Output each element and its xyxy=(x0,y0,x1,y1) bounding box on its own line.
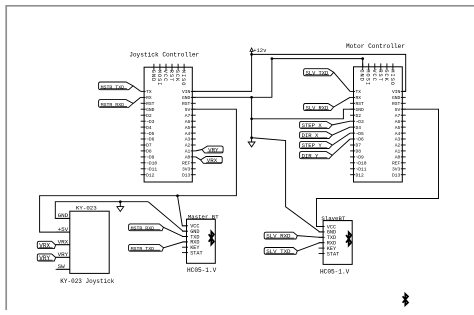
svg-text:SCK: SCK xyxy=(383,69,389,82)
wire MSTR TXD flag to TX xyxy=(133,86,141,92)
svg-text:SLV RXD: SLV RXD xyxy=(306,105,329,111)
svg-text:~D9: ~D9 xyxy=(146,155,155,161)
svg-text:~D11: ~D11 xyxy=(146,166,157,172)
svg-text:MSTR RXD: MSTR RXD xyxy=(131,225,155,231)
svg-text:VRX: VRX xyxy=(39,242,50,249)
ground symbol G2 xyxy=(117,207,124,212)
svg-text:RST: RST xyxy=(356,101,365,107)
wire VRX flag to A0 xyxy=(196,157,201,160)
svg-text:Joystick Controller: Joystick Controller xyxy=(129,51,199,58)
svg-text:D2: D2 xyxy=(146,113,152,119)
svg-text:~D10: ~D10 xyxy=(356,161,367,167)
svg-text:VIN: VIN xyxy=(182,89,191,95)
svg-text:5V: 5V xyxy=(185,107,191,113)
svg-text:A3: A3 xyxy=(185,137,191,143)
svg-text:GND: GND xyxy=(392,95,401,101)
svg-text:RST: RST xyxy=(146,101,155,107)
flag MSTR RXD (master BT TXD) xyxy=(129,224,164,231)
flag DIR X xyxy=(300,132,333,139)
svg-text:DIR X: DIR X xyxy=(302,132,319,139)
IC U2 Motor Controller (Arduino Nano) xyxy=(354,67,403,182)
svg-text:D13: D13 xyxy=(392,172,401,178)
svg-text:~D6: ~D6 xyxy=(146,137,155,143)
flag MSTR TXD (master BT RXD) xyxy=(129,244,164,251)
flag SLV RXD (slave TXD) xyxy=(264,232,297,239)
svg-text:A3: A3 xyxy=(395,137,401,143)
wire VRX flag to KY VRX xyxy=(56,244,70,246)
svg-text:~D11: ~D11 xyxy=(356,166,367,172)
flag VRX (KY-023) xyxy=(37,241,55,248)
svg-text:MOSI: MOSI xyxy=(365,69,371,86)
svg-text:RST: RST xyxy=(392,101,401,107)
wire KY GND rail xyxy=(55,202,148,219)
bluetooth icon xyxy=(209,232,214,245)
flag VRY (KY-023) xyxy=(37,254,55,261)
svg-text:VRX: VRX xyxy=(58,239,69,246)
svg-text:D4: D4 xyxy=(146,125,152,131)
svg-text:RX: RX xyxy=(356,95,362,101)
svg-text:VCC: VCC xyxy=(371,69,377,82)
wire motor 5V to slave VCC xyxy=(317,109,439,226)
wire GND to motor GND xyxy=(252,109,354,119)
wire DIR Y flag to ~D6 xyxy=(332,139,350,155)
svg-text:A4: A4 xyxy=(395,131,401,137)
svg-text:A0: A0 xyxy=(185,155,191,161)
svg-text:GND: GND xyxy=(150,70,156,83)
wire SLV TXD flag to slave RXD xyxy=(297,243,323,251)
wire 5V to master VCC xyxy=(178,196,187,226)
svg-text:GND: GND xyxy=(182,95,191,101)
flag SLV TXD (motor TX) xyxy=(304,69,334,76)
wire KY GND to master GND xyxy=(148,202,186,232)
module SlaveBT HC05 xyxy=(323,221,352,265)
svg-text:A5: A5 xyxy=(395,125,401,131)
svg-text:~D9: ~D9 xyxy=(356,155,365,161)
svg-text:MSTR TXD: MSTR TXD xyxy=(131,246,155,252)
svg-text:+12v: +12v xyxy=(253,47,267,54)
svg-text:DIR Y: DIR Y xyxy=(302,152,319,159)
node ground branch xyxy=(119,200,122,203)
svg-text:D4: D4 xyxy=(356,125,362,131)
svg-text:TX: TX xyxy=(146,89,152,95)
node GND branch motor xyxy=(250,117,253,120)
flag STEP X xyxy=(300,121,333,128)
svg-text:Motor Controller: Motor Controller xyxy=(346,43,405,50)
wire joystick GND to top rail xyxy=(192,59,362,98)
svg-text:SLV RXD: SLV RXD xyxy=(266,233,291,240)
svg-text:HC05-1.V: HC05-1.V xyxy=(187,267,217,274)
svg-text:A5: A5 xyxy=(185,125,191,131)
svg-text:REF: REF xyxy=(392,161,401,167)
svg-text:A7: A7 xyxy=(395,113,401,119)
wire SLV RXD flag to slave TXD xyxy=(297,236,323,238)
flag VRX (joystick A0) xyxy=(201,157,223,164)
svg-text:A2: A2 xyxy=(185,143,191,149)
svg-text:D7: D7 xyxy=(356,143,362,149)
flag DIR Y xyxy=(300,152,333,159)
svg-text:+5V: +5V xyxy=(58,226,69,233)
svg-text:MSTR TXD: MSTR TXD xyxy=(101,84,125,90)
svg-text:MSTR RXD: MSTR RXD xyxy=(101,102,125,108)
node GND rail right xyxy=(361,57,364,60)
svg-text:A0: A0 xyxy=(395,155,401,161)
svg-text:MISO: MISO xyxy=(389,69,395,86)
wire ground stub xyxy=(119,202,121,207)
svg-text:KY-023: KY-023 xyxy=(76,205,97,212)
svg-text:REF: REF xyxy=(182,161,191,167)
svg-text:A4: A4 xyxy=(185,131,191,137)
wire VRY flag to KY VRY xyxy=(56,256,70,258)
svg-text:RST: RST xyxy=(168,70,174,83)
svg-text:VIN: VIN xyxy=(392,89,401,95)
wire STEP Y flag to ~D5 xyxy=(332,133,350,145)
flag SLV TXD (slave RXD) xyxy=(264,248,297,255)
svg-text:5V: 5V xyxy=(395,107,401,113)
wire KY SW stub xyxy=(57,268,70,270)
svg-text:MISO: MISO xyxy=(180,70,186,87)
svg-text:STAT: STAT xyxy=(327,251,339,257)
svg-text:VRY: VRY xyxy=(208,147,219,154)
flag MSTR RXD (joystick RX) xyxy=(99,100,134,108)
svg-text:3V3: 3V3 xyxy=(182,166,191,172)
svg-text:A2: A2 xyxy=(395,143,401,149)
svg-text:VRY: VRY xyxy=(58,251,69,258)
svg-text:~D3: ~D3 xyxy=(356,119,365,125)
power +12v symbol xyxy=(250,48,253,51)
svg-text:RX: RX xyxy=(146,95,152,101)
node 5V branch xyxy=(176,194,179,197)
bluetooth icon standalone xyxy=(403,294,408,305)
svg-text:~D3: ~D3 xyxy=(146,119,155,125)
svg-text:RST: RST xyxy=(377,69,383,82)
wire slave GND branch xyxy=(252,138,324,232)
svg-text:A1: A1 xyxy=(185,149,191,155)
svg-text:D7: D7 xyxy=(146,143,152,149)
wire MSTR TXD flag to master RXD xyxy=(164,242,187,248)
svg-text:A6: A6 xyxy=(185,119,191,125)
svg-text:D8: D8 xyxy=(146,149,152,155)
wire VRY flag to A1 xyxy=(196,150,202,151)
wire STEP X flag to ~D3 xyxy=(332,121,350,125)
flag STEP Y xyxy=(300,142,333,149)
svg-text:RST: RST xyxy=(182,101,191,107)
wire joystick 5V rail xyxy=(40,109,237,232)
svg-text:GND: GND xyxy=(146,107,155,113)
svg-text:STEP X: STEP X xyxy=(302,122,323,129)
svg-text:~D5: ~D5 xyxy=(356,131,365,137)
module KY-023 joystick xyxy=(70,211,109,273)
svg-text:D12: D12 xyxy=(146,172,155,178)
bluetooth icon xyxy=(346,232,351,245)
IC U1 Joystick Controller (Arduino Nano) xyxy=(144,67,192,182)
wire +12v down to joystick VIN xyxy=(192,54,251,91)
svg-text:VRY: VRY xyxy=(39,255,50,262)
svg-text:~D6: ~D6 xyxy=(356,137,365,143)
svg-text:SW: SW xyxy=(58,263,66,270)
svg-text:~D10: ~D10 xyxy=(146,161,157,167)
svg-text:D13: D13 xyxy=(182,172,191,178)
svg-text:A1: A1 xyxy=(395,149,401,155)
svg-text:SLV TXD: SLV TXD xyxy=(266,248,291,255)
svg-text:A7: A7 xyxy=(185,113,191,119)
svg-text:VRX: VRX xyxy=(207,157,218,164)
svg-text:3V3: 3V3 xyxy=(392,166,401,172)
svg-text:GND: GND xyxy=(58,212,69,219)
svg-text:GND: GND xyxy=(359,69,365,82)
wire SLV TXD flag to motor TX xyxy=(334,72,350,91)
svg-text:STAT: STAT xyxy=(190,250,202,256)
node GND rail left xyxy=(271,57,274,60)
wire SLV RXD flag to motor RX xyxy=(334,97,350,107)
svg-text:HC05-1.V: HC05-1.V xyxy=(320,268,350,275)
wire +12v rail to motor VIN xyxy=(252,54,406,91)
svg-text:VCC: VCC xyxy=(162,70,168,83)
wire MSTR RXD flag to RX xyxy=(133,97,141,103)
wire GND vertical drop xyxy=(251,97,253,142)
flag SLV RXD (motor RX) xyxy=(304,104,334,111)
svg-text:TX: TX xyxy=(356,89,362,95)
svg-text:D12: D12 xyxy=(356,172,365,178)
svg-text:SLV TXD: SLV TXD xyxy=(306,71,329,77)
svg-text:D8: D8 xyxy=(356,149,362,155)
flag MSTR TXD (joystick TX) xyxy=(99,82,134,90)
svg-text:D2: D2 xyxy=(356,113,362,119)
svg-text:MOSI: MOSI xyxy=(156,70,162,87)
flag VRY (joystick A1) xyxy=(202,146,223,153)
svg-text:A6: A6 xyxy=(395,119,401,125)
node +12v junction xyxy=(250,53,253,56)
svg-text:~D5: ~D5 xyxy=(146,131,155,137)
svg-text:KY-023 Joystick: KY-023 Joystick xyxy=(60,278,114,285)
module Master BT HC05 xyxy=(187,219,216,263)
svg-text:STEP Y: STEP Y xyxy=(302,142,323,149)
svg-text:SCK: SCK xyxy=(174,70,180,83)
wire DIR X flag to D4 xyxy=(332,127,350,135)
node GND branch slave xyxy=(250,136,253,139)
svg-text:GND: GND xyxy=(356,107,365,113)
node GND at joystick GND wire xyxy=(250,96,253,99)
wire MSTR RXD flag to master TXD xyxy=(164,227,187,236)
ground symbol G1 xyxy=(248,142,255,147)
